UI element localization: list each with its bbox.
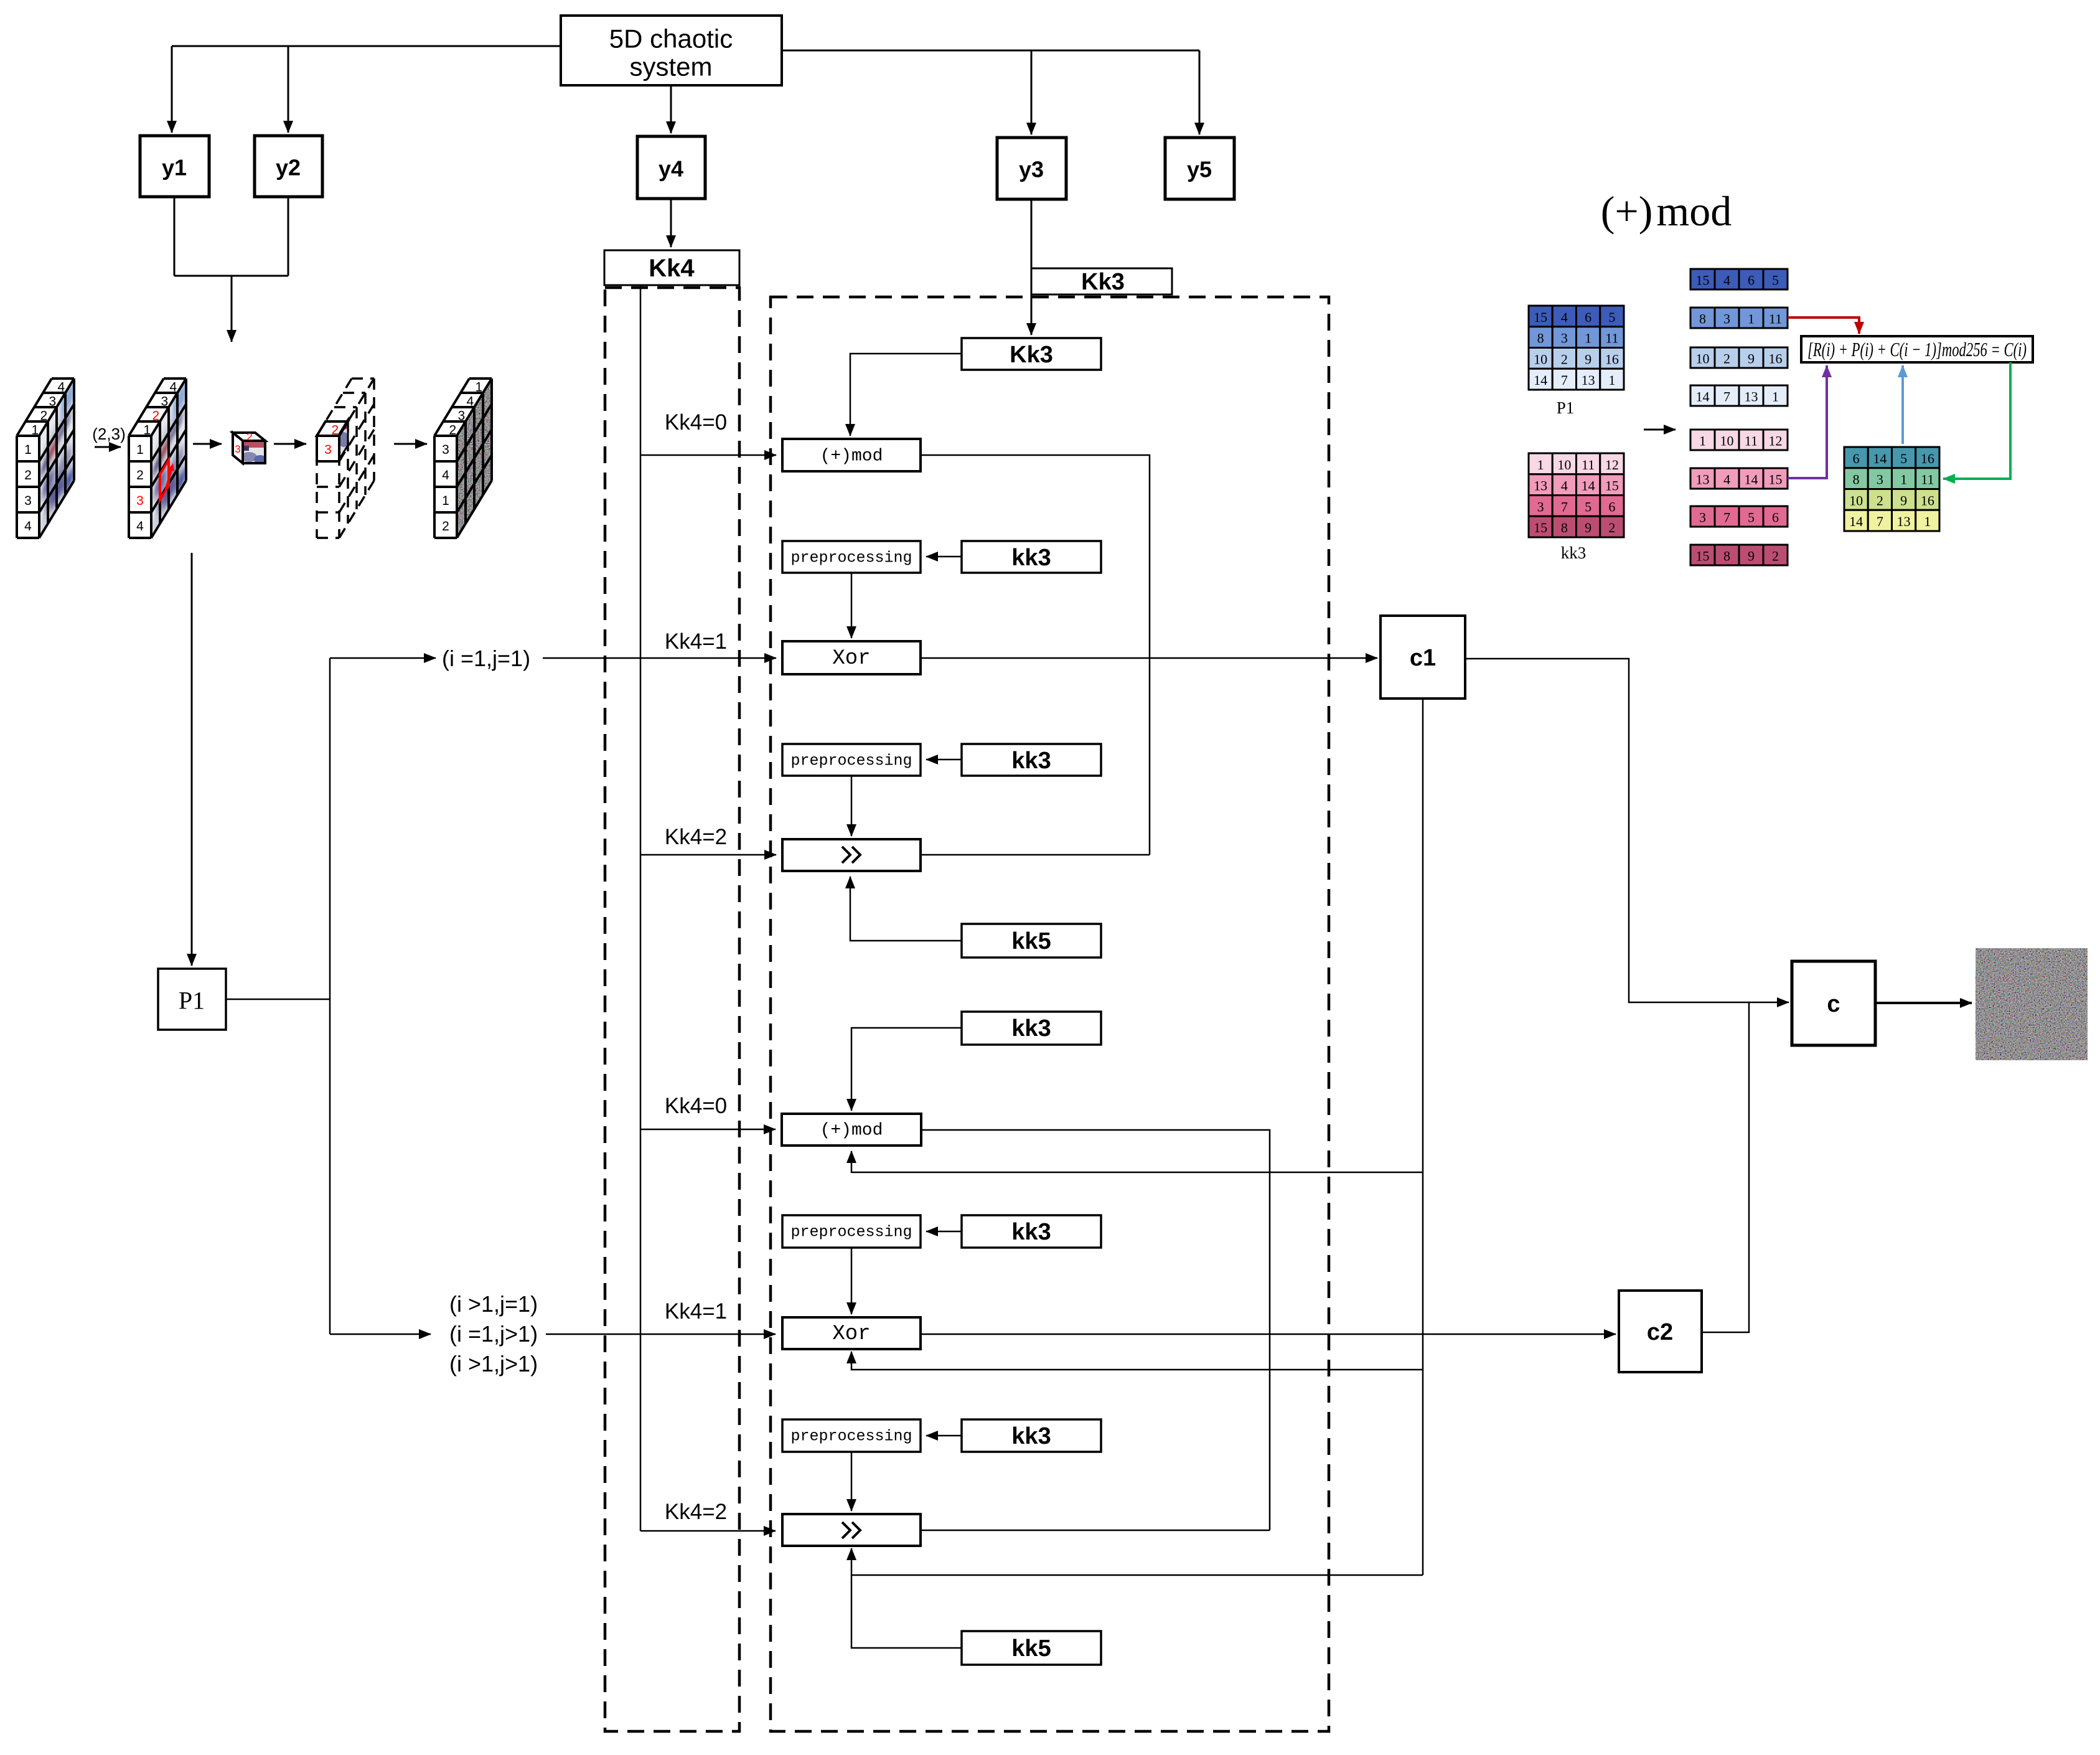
wire c to cipher image (1875, 1002, 1972, 1004)
svg-text:16: 16 (1921, 451, 1934, 466)
svg-text:3: 3 (1877, 472, 1883, 487)
svg-text:y2: y2 (276, 155, 301, 181)
wire arrow into y3 (1031, 50, 1033, 134)
svg-text:4: 4 (1561, 309, 1568, 325)
svg-text:7: 7 (1561, 372, 1568, 388)
wire arrow C to D (394, 443, 427, 445)
svg-text:kk3: kk3 (1011, 748, 1051, 774)
wire kk3 C to (+)mod lower (851, 1028, 962, 1111)
wire kk3 A to preprocessing 1 (926, 556, 962, 558)
svg-text:3: 3 (1699, 510, 1706, 525)
svg-text:4: 4 (1561, 478, 1568, 494)
wire (+)mod lower output (921, 1130, 1270, 1530)
wire arrow merge down (231, 276, 233, 342)
svg-text:preprocessing: preprocessing (790, 1428, 912, 1446)
svg-text:8: 8 (1723, 548, 1730, 564)
svg-text:1: 1 (442, 494, 449, 508)
svg-text:[R(i) + P(i) + C(i − 1)]mod256: [R(i) + P(i) + C(i − 1)]mod256 = C(i) (1807, 338, 2027, 360)
svg-text:2: 2 (449, 423, 456, 438)
wire Kk4=2 branch upper (640, 854, 776, 856)
svg-text:2: 2 (442, 519, 449, 534)
wire blue arrow result to formula (1901, 365, 1904, 444)
wire (+)mod upper output (921, 455, 1150, 855)
wire green arrow formula to result (1943, 362, 2010, 479)
svg-text:14: 14 (1582, 478, 1595, 494)
svg-text:3: 3 (161, 395, 168, 409)
svg-text:14: 14 (1873, 451, 1887, 466)
wire preprocessing 4 to shift lower (851, 1452, 853, 1511)
wire Kk4 select vertical (640, 285, 642, 1531)
svg-text:8: 8 (1853, 472, 1860, 487)
svg-text:11: 11 (1582, 457, 1595, 473)
vector kk3 row 2 (1690, 468, 1788, 489)
svg-text:Xor: Xor (832, 1322, 870, 1346)
svg-text:7: 7 (1561, 499, 1568, 514)
svg-text:(i >1,j=1): (i >1,j=1) (449, 1291, 538, 1317)
svg-text:15: 15 (1769, 472, 1783, 487)
svg-text:15: 15 (1696, 273, 1710, 288)
svg-text:1: 1 (1924, 514, 1931, 529)
wire kk3 B to preprocessing 2 (926, 759, 962, 761)
wire Kk3 inner to (+)mod upper (850, 354, 962, 436)
svg-text:15: 15 (1534, 520, 1547, 535)
wire 5D left to y1/y2 (172, 45, 561, 47)
svg-text:1: 1 (1748, 311, 1755, 327)
svg-text:13: 13 (1582, 372, 1595, 388)
svg-text:Kk4=2: Kk4=2 (665, 825, 727, 849)
svg-text:kk3: kk3 (1011, 545, 1051, 571)
svg-text:Kk4=1: Kk4=1 (665, 1299, 727, 1324)
svg-text:10: 10 (1849, 492, 1863, 508)
wire y1 bottom (174, 197, 176, 276)
svg-text:8: 8 (1699, 311, 1706, 327)
box kk3 C top of lower group (962, 1012, 1101, 1045)
svg-text:12: 12 (1769, 433, 1783, 449)
svg-text:5D chaotic: 5D chaotic (609, 24, 733, 54)
wire P1 branch vertical (329, 658, 331, 1334)
svg-text:4: 4 (466, 395, 474, 409)
svg-text:Xor: Xor (832, 647, 870, 670)
svg-text:1: 1 (143, 423, 151, 438)
wire arrow into y2 (288, 46, 289, 133)
svg-text:3: 3 (49, 395, 56, 409)
svg-text:13: 13 (1897, 514, 1911, 529)
svg-text:(+)mod: (+)mod (820, 447, 883, 466)
svg-text:11: 11 (1605, 331, 1618, 346)
cube matrix B (129, 377, 187, 538)
wire kk5 lower to shift lower (851, 1575, 962, 1648)
svg-text:10: 10 (1534, 351, 1547, 367)
box Kk3 header (1031, 268, 1172, 295)
svg-text:3: 3 (324, 443, 332, 457)
svg-text:1: 1 (136, 443, 144, 457)
wire arrow into y1 (171, 46, 173, 133)
svg-text:13: 13 (1534, 478, 1547, 494)
box Xor upper (782, 641, 921, 674)
wire c1 feedback into Xor lower bottom (851, 1352, 1423, 1370)
svg-text:4: 4 (24, 519, 32, 534)
svg-text:8: 8 (1537, 331, 1544, 346)
svg-text:P1: P1 (179, 987, 205, 1015)
svg-text:preprocessing: preprocessing (790, 549, 912, 567)
box c1 (1380, 616, 1465, 699)
svg-text:4: 4 (442, 468, 449, 482)
box P1 (158, 969, 226, 1030)
svg-text:kk3: kk3 (1011, 1423, 1051, 1449)
box y1 (140, 136, 209, 197)
box 5D chaotic system (561, 16, 782, 85)
svg-text:9: 9 (1748, 548, 1755, 564)
box shift upper (782, 839, 921, 871)
wire kk3 D to preprocessing 3 (926, 1231, 962, 1233)
svg-text:2: 2 (1772, 548, 1779, 564)
svg-text:1: 1 (1699, 433, 1706, 449)
svg-text:9: 9 (1585, 520, 1591, 535)
svg-text:12: 12 (1605, 457, 1619, 473)
svg-text:6: 6 (1608, 499, 1615, 514)
cube matrix A (17, 377, 75, 538)
svg-text:kk3: kk3 (1011, 1015, 1051, 1042)
box y2 (255, 136, 322, 197)
svg-text:y4: y4 (659, 156, 683, 182)
cipher image noise (1976, 948, 2088, 1060)
wire Xor upper output to c1 (921, 657, 1377, 659)
wire arrow pixel cube to C (274, 443, 306, 445)
svg-text:1: 1 (475, 380, 482, 395)
svg-text:15: 15 (1534, 309, 1547, 325)
svg-text:8: 8 (1561, 520, 1568, 535)
vector kk3 row 4 (1690, 545, 1788, 565)
svg-text:(i =1,j=1): (i =1,j=1) (442, 646, 530, 671)
svg-text:9: 9 (1748, 351, 1755, 367)
wire Xor lower output to c2 (921, 1334, 1616, 1335)
svg-text:3: 3 (136, 494, 144, 508)
box kk3 A (962, 541, 1101, 573)
svg-text:Kk4=2: Kk4=2 (665, 1500, 727, 1524)
wire arrow to lower conditions (330, 1334, 431, 1335)
svg-text:2: 2 (1608, 520, 1615, 535)
svg-text:5: 5 (1585, 499, 1591, 514)
box preprocessing 3 (782, 1215, 921, 1248)
svg-text:3: 3 (24, 494, 32, 508)
svg-text:2: 2 (24, 468, 32, 482)
wire shift lower output (921, 1530, 1270, 1532)
cube pixel (233, 431, 266, 464)
wire P1 to branch vertical (226, 999, 330, 1000)
vector kk3 row 1 (1690, 430, 1788, 450)
svg-text:6: 6 (1585, 309, 1591, 325)
svg-text:(i >1,j>1): (i >1,j>1) (449, 1351, 538, 1376)
svg-text:y5: y5 (1187, 157, 1212, 182)
wire 5D right to y3/y5 (782, 50, 1199, 52)
svg-text:2: 2 (152, 409, 159, 423)
box preprocessing 4 (782, 1419, 921, 1452)
box c (1792, 961, 1875, 1045)
box kk3 E (962, 1419, 1101, 1452)
svg-text:7: 7 (1723, 389, 1730, 405)
wire kk3 E to preprocessing 4 (926, 1435, 962, 1437)
svg-text:6: 6 (1853, 451, 1860, 466)
svg-text:10: 10 (1720, 433, 1734, 449)
svg-text:1: 1 (1772, 389, 1779, 405)
svg-text:(+)mod: (+)mod (1601, 187, 1732, 235)
svg-text:2: 2 (40, 409, 47, 423)
wire preprocessing 3 to Xor lower (851, 1248, 853, 1314)
vector P1 row 3 (1690, 347, 1788, 368)
svg-text:14: 14 (1696, 389, 1710, 405)
svg-text:5: 5 (1608, 309, 1615, 325)
svg-text:y3: y3 (1019, 157, 1044, 182)
svg-text:14: 14 (1745, 472, 1758, 487)
svg-text:kk5: kk5 (1011, 1635, 1051, 1662)
svg-text:system: system (629, 52, 712, 82)
svg-text:15: 15 (1605, 478, 1619, 494)
svg-text:16: 16 (1921, 492, 1934, 508)
svg-text:11: 11 (1745, 433, 1758, 449)
svg-text:3: 3 (1537, 499, 1544, 514)
svg-text:Kk4: Kk4 (649, 255, 695, 282)
matrix P1 (1529, 306, 1624, 390)
svg-text:4: 4 (57, 380, 65, 395)
svg-text:kk3: kk3 (1011, 1219, 1051, 1245)
wire y1-y2 merge (174, 275, 288, 277)
svg-text:kk3: kk3 (1561, 543, 1587, 562)
svg-text:14: 14 (1534, 372, 1547, 388)
svg-text:9: 9 (1585, 351, 1591, 367)
wire purple arrow row6 to formula (1788, 365, 1827, 478)
svg-text:preprocessing: preprocessing (790, 752, 912, 770)
svg-text:16: 16 (1605, 351, 1619, 367)
svg-text:2: 2 (1877, 492, 1883, 508)
wire arrow into y5 (1199, 50, 1201, 134)
svg-text:preprocessing: preprocessing (790, 1223, 912, 1241)
wire preprocessing 2 to shift (851, 776, 853, 836)
svg-text:kk5: kk5 (1011, 928, 1051, 954)
svg-text:4: 4 (169, 380, 177, 395)
vector P1 row 4 (1690, 385, 1788, 406)
svg-text:Kk4=0: Kk4=0 (665, 1094, 727, 1118)
wire arrow A to B (95, 446, 121, 448)
wire arrow matrices to rows (1644, 429, 1676, 431)
svg-text:Kk4=1: Kk4=1 (665, 629, 727, 654)
svg-text:1: 1 (1608, 372, 1615, 388)
box Kk3 inner (962, 338, 1101, 370)
box c2 (1619, 1291, 1702, 1372)
dashed container Kk4 (605, 288, 739, 1731)
matrix kk3 (1529, 453, 1624, 537)
svg-text:16: 16 (1769, 351, 1783, 367)
wire Kk4=0 branch upper (640, 454, 776, 456)
svg-text:(i =1,j>1): (i =1,j>1) (449, 1321, 538, 1347)
dashed container keystream ops (771, 297, 1329, 1731)
svg-text:9: 9 (1900, 492, 1907, 508)
box kk5 lower (962, 1631, 1101, 1665)
svg-text:10: 10 (1557, 457, 1571, 473)
svg-text:Kk3: Kk3 (1081, 269, 1125, 295)
wire red arrow row2 to formula (1788, 318, 1859, 334)
svg-text:13: 13 (1696, 472, 1710, 487)
vector kk3 row 3 (1690, 506, 1788, 527)
box y5 (1165, 138, 1234, 199)
matrix C result (1844, 447, 1939, 531)
svg-text:13: 13 (1745, 389, 1758, 405)
wire c2 output to c (1702, 1002, 1749, 1332)
svg-text:15: 15 (1696, 548, 1710, 564)
svg-text:c: c (1827, 991, 1840, 1017)
box kk5 upper (962, 924, 1101, 957)
wire Kk4=0 branch lower (640, 1129, 776, 1131)
svg-text:(2,3): (2,3) (92, 425, 125, 443)
box (+)mod lower (782, 1114, 921, 1146)
svg-text:P1: P1 (1557, 398, 1575, 417)
svg-text:1: 1 (31, 423, 39, 438)
box preprocessing 2 (782, 744, 921, 776)
box Kk4 (604, 250, 739, 285)
svg-text:7: 7 (1723, 510, 1730, 525)
svg-text:5: 5 (1772, 273, 1779, 288)
box y4 (637, 136, 705, 199)
svg-text:5: 5 (1748, 510, 1755, 525)
svg-text:(+)mod: (+)mod (820, 1121, 883, 1141)
svg-text:c2: c2 (1647, 1319, 1673, 1345)
svg-text:7: 7 (1877, 514, 1883, 529)
svg-text:10: 10 (1696, 351, 1710, 367)
svg-text:Kk4=0: Kk4=0 (665, 410, 727, 435)
wire arrow to (i=1,j=1) (330, 657, 436, 659)
svg-text:3: 3 (1561, 331, 1568, 346)
svg-text:Kk3: Kk3 (1010, 342, 1053, 368)
box y3 (997, 138, 1066, 199)
vector P1 row 1 (1690, 269, 1788, 289)
svg-text:2: 2 (136, 468, 144, 482)
box preprocessing 1 (782, 541, 921, 573)
svg-text:6: 6 (1748, 273, 1755, 288)
wire into Xor lower (546, 1334, 776, 1335)
formula box (1801, 336, 2033, 362)
wire y4 to Kk4 (670, 199, 672, 247)
svg-text:c1: c1 (1410, 645, 1436, 671)
svg-text:11: 11 (1769, 311, 1782, 327)
wire into Xor upper (543, 657, 776, 659)
cube matrix C (317, 379, 374, 538)
cube matrix D (434, 379, 492, 538)
vector P1 row 2 (1690, 308, 1788, 328)
wire Kk4=2 branch lower (640, 1530, 776, 1532)
svg-text:1: 1 (1900, 472, 1907, 487)
svg-text:1: 1 (1585, 331, 1591, 346)
wire long arrow cubes to P1 (191, 553, 193, 966)
wire arrow B to pixel cube (193, 443, 222, 445)
svg-text:3: 3 (1723, 311, 1730, 327)
wire c1 feedback into shift lower bottom (851, 1548, 1423, 1575)
svg-text:5: 5 (1900, 451, 1907, 466)
svg-text:4: 4 (1723, 273, 1730, 288)
svg-text:6: 6 (1772, 510, 1779, 525)
svg-text:1: 1 (24, 443, 32, 457)
box shift lower (782, 1514, 921, 1546)
svg-text:2: 2 (1561, 351, 1568, 367)
wire y3 down through Kk3 into inner Kk3 (1031, 199, 1033, 335)
wire y2 bottom (288, 197, 289, 276)
wire shift upper output (921, 854, 1150, 856)
svg-text:y1: y1 (162, 155, 187, 181)
svg-text:1: 1 (1537, 457, 1544, 473)
svg-text:3: 3 (442, 443, 449, 457)
wire preprocessing 1 to Xor (851, 573, 853, 638)
svg-text:2: 2 (246, 431, 252, 443)
svg-text:4: 4 (136, 519, 144, 534)
wire c1 output to c (1465, 659, 1789, 1002)
svg-text:11: 11 (1921, 472, 1934, 487)
svg-text:3: 3 (457, 409, 465, 423)
box (+)mod upper (782, 439, 921, 471)
svg-text:4: 4 (1723, 472, 1730, 487)
wire c1 bottom feedback vertical (1422, 699, 1424, 1575)
box kk3 B (962, 744, 1101, 776)
svg-text:14: 14 (1849, 514, 1863, 529)
svg-text:2: 2 (1723, 351, 1730, 367)
wire c1 feedback into (+)mod lower bottom (851, 1151, 1423, 1172)
wire 5D bottom to y4 (670, 85, 672, 133)
wire kk5 to shift upper (850, 877, 962, 941)
box Xor lower (782, 1317, 921, 1349)
svg-text:3: 3 (235, 443, 240, 455)
box kk3 D (962, 1215, 1101, 1248)
